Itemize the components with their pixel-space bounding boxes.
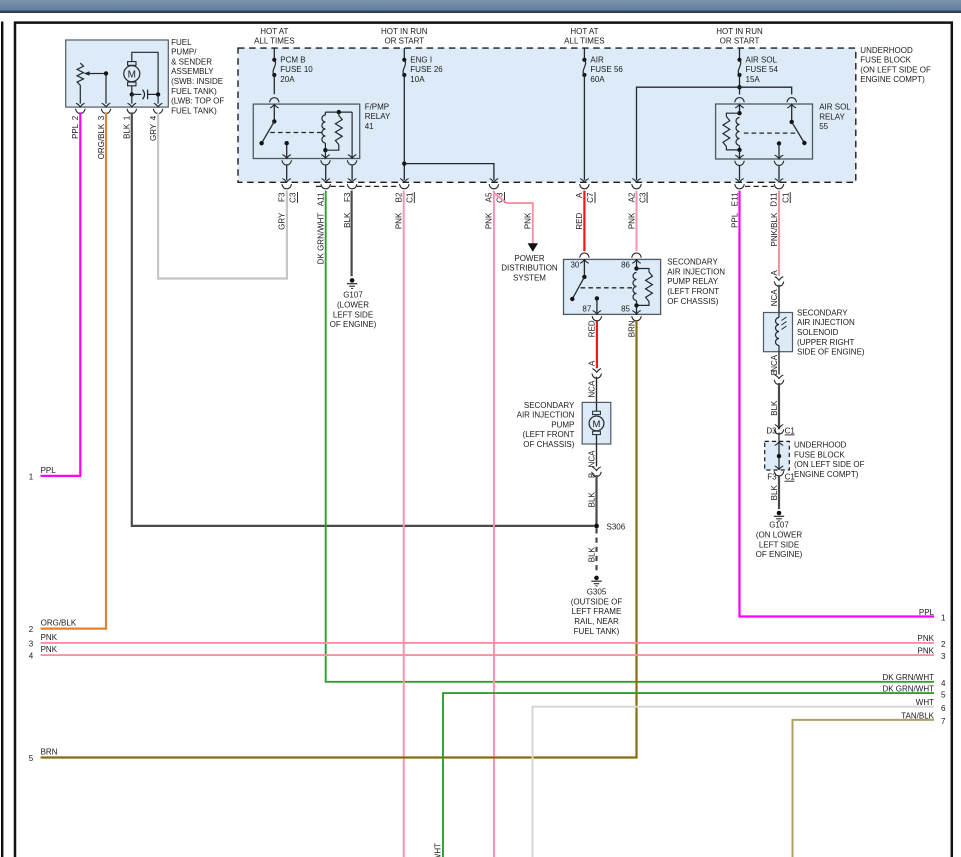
svg-text:(LEFT FRONT: (LEFT FRONT [667,287,719,296]
wire PNK to power distribution [495,194,533,244]
wire NCA below solenoid [778,352,780,375]
relay41 resistor [325,112,342,150]
relay41 control dashed link [270,132,323,134]
wire PCM B feed [273,48,275,60]
svg-text:LEFT SIDE: LEFT SIDE [759,540,799,549]
underhood fuse block (small, dashed) [765,441,790,470]
pin B2/C1 labels [395,192,415,203]
pin A/C7 labels [575,192,595,203]
svg-text:C1: C1 [781,192,790,203]
SAI relay pin85 label [621,304,630,313]
label D3 [766,426,777,435]
svg-text:C3: C3 [638,192,647,203]
wire into small fuse block [778,433,780,442]
connector A solenoid [774,277,784,287]
wire PNK bus 3-2 [41,642,934,644]
svg-text:FUEL TANK): FUEL TANK) [171,87,217,96]
svg-text:OF ENGINE): OF ENGINE) [756,550,803,559]
wire PPL left [41,112,81,476]
label PNK B2 [395,212,404,229]
wire DK GRN/WHT A11 [326,191,934,682]
svg-text:87: 87 [582,304,591,313]
svg-text:PNK: PNK [918,634,935,643]
label HOT AT ALL TIMES (AIR) [564,27,604,46]
svg-text:PPL: PPL [71,123,80,139]
svg-text:A11: A11 [317,192,326,206]
svg-text:FUSE 26: FUSE 26 [410,65,443,74]
label F3 small [767,473,777,482]
svg-text:HOT IN RUN: HOT IN RUN [716,27,763,36]
svg-text:BLK: BLK [123,123,132,139]
svg-text:LEFT SIDE: LEFT SIDE [333,310,373,319]
svg-text:SYSTEM: SYSTEM [513,273,546,282]
svg-text:(UPPER RIGHT: (UPPER RIGHT [797,338,854,347]
wire fuse10 to relay41 [273,75,275,94]
pin A5/C3 labels [485,192,505,203]
pump output pin1 [127,94,137,113]
svg-text:A5: A5 [485,192,494,202]
wire BLK to S306 [595,475,597,526]
svg-text:A: A [575,192,584,198]
wire PNK bus 4-3 [41,654,934,656]
wire ENG I feed [403,48,405,60]
SAI relay pin86 crossing [632,253,642,263]
svg-text:PCM B: PCM B [280,55,305,64]
relay AIR SOL 55 box [716,104,813,159]
relay55 switch input crossing [787,98,797,108]
svg-text:G107: G107 [343,291,363,300]
svg-text:BLK: BLK [587,546,596,562]
svg-text:SECONDARY: SECONDARY [524,401,575,410]
SAI relay switch [570,260,587,302]
fuse AIR SOL FUSE 54 15A [737,55,778,84]
svg-text:B2: B2 [395,192,404,202]
svg-text:ENGINE COMPT): ENGINE COMPT) [794,470,859,479]
SAI solenoid coil [776,313,787,352]
left edge 2 ORG/BLK [29,619,77,634]
svg-text:(ON LOWER: (ON LOWER [756,531,802,540]
label DK GRN/WHT wire [317,213,326,265]
pin F3 label (BLK) [343,192,352,202]
label B pump [587,473,596,478]
svg-text:OF CHASSIS): OF CHASSIS) [667,297,718,306]
label UNDERHOOD FUSE BLOCK [860,46,931,84]
wire fuse54 junction [737,75,741,95]
svg-text:NCA: NCA [770,354,779,372]
pin D11/C1 labels [769,192,790,207]
label F/PMP RELAY 41 [365,102,391,131]
wire TAN/BLK bus 7 [793,720,935,857]
svg-text:ASSEMBLY: ASSEMBLY [171,67,214,76]
svg-text:(ON LEFT SIDE OF: (ON LEFT SIDE OF [794,460,865,469]
svg-text:86: 86 [621,261,630,270]
fuel pump motor [124,62,140,86]
svg-text:3: 3 [941,652,946,661]
sender output pin3 [101,74,111,114]
right edge DK GRN/WHT 5 [882,685,946,700]
svg-text:FUEL TANK): FUEL TANK) [171,106,217,115]
relay55 control dashed link [744,132,796,134]
right edge TAN/BLK 7 [901,711,946,726]
connector D3/C1 [774,425,784,435]
label BRN 85 [627,320,636,337]
wire fuse26 down to B2 [400,75,410,189]
svg-text:M: M [128,70,136,81]
label SECONDARY AIR INJECTION SOLENOID [797,308,865,356]
sender output pin2 [76,85,86,113]
svg-text:OR START: OR START [384,37,424,46]
SAI pump motor [589,402,604,444]
motor top loop wire [132,52,158,92]
svg-text:PNK/BLK: PNK/BLK [770,212,779,246]
svg-text:BRN: BRN [41,748,58,757]
svg-text:PPL: PPL [730,212,739,228]
relay41 output F3 right [347,112,357,189]
label G107 left [330,291,377,329]
svg-text:RAIL, NEAR: RAIL, NEAR [574,617,619,626]
connector strip dashed E11-D11 [745,185,774,187]
relay41 input crossing [270,98,280,108]
relay41 coil output A11 [321,150,331,189]
label NCA solenoid bottom [770,354,779,372]
small block internal wire [775,442,784,470]
svg-text:5: 5 [941,690,946,699]
SAI relay coil [633,273,639,308]
wire PNK A2 [636,191,638,252]
svg-text:3: 3 [29,639,34,648]
svg-text:7: 7 [941,717,946,726]
svg-text:NCA: NCA [770,289,779,307]
svg-text:FUEL TANK): FUEL TANK) [574,627,620,636]
svg-text:UNDERHOOD: UNDERHOOD [794,441,847,450]
svg-text:BLK: BLK [343,212,352,228]
fuel pump & sender assembly box [66,40,169,107]
svg-text:DK GRN/WHT: DK GRN/WHT [882,673,934,682]
svg-text:PNK: PNK [395,212,404,229]
svg-text:PUMP: PUMP [551,420,574,429]
label G305 [571,588,623,636]
label RED 87 [588,320,597,337]
svg-text:C3: C3 [289,192,298,203]
svg-text:RED: RED [588,320,597,337]
relay F/PMP 41 box [253,104,359,158]
wire NCA to solenoid [778,285,780,313]
wire WHT bus 6 [533,707,935,857]
svg-text:AIR: AIR [590,55,604,64]
relay41 coil top node [325,110,352,114]
label POWER DISTRIBUTION SYSTEM [501,254,558,283]
svg-text:D3: D3 [766,426,777,435]
svg-text:AIR INJECTION: AIR INJECTION [797,318,855,327]
fuse AIR FUSE 56 60A [582,55,623,84]
svg-text:(LOWER: (LOWER [337,301,369,310]
connector B solenoid [774,375,784,385]
svg-text:PPL: PPL [41,466,57,475]
SAI relay resistor [637,269,653,306]
label NCA solenoid top [770,289,779,307]
svg-text:DK GRN/WHT: DK GRN/WHT [882,685,934,694]
wire BRN 85 [41,321,637,758]
label C1 at D3 [785,426,796,435]
svg-text:GRY: GRY [149,123,158,141]
splice S306 [594,522,626,531]
right edge DK GRN/WHT 4 [882,673,946,688]
svg-text:(OUTSIDE OF: (OUTSIDE OF [571,597,623,606]
label B solenoid [770,370,779,375]
secondary air injection solenoid box [764,313,793,352]
svg-text:SECONDARY: SECONDARY [797,308,848,317]
svg-text:TAN/BLK: TAN/BLK [901,711,934,720]
right edge PPL 1 [919,608,946,623]
svg-text:ALL TIMES: ALL TIMES [564,37,604,46]
svg-text:OR START: OR START [720,37,760,46]
svg-text:4: 4 [941,679,946,688]
wire RED 87 [596,321,598,368]
svg-text:(LEFT FRONT: (LEFT FRONT [523,430,575,439]
svg-text:PNK: PNK [41,645,58,654]
wire PPL right [740,191,935,617]
connector strip dashed (PCM C1) [316,185,399,187]
label G107 right [756,521,803,559]
relay55 switch [790,104,807,145]
svg-text:PUMP/: PUMP/ [171,48,197,57]
label NCA pump top [587,380,596,398]
svg-text:D11: D11 [769,192,778,207]
fuse PCM B FUSE 10 20A [272,55,313,84]
label BLK wire [343,212,352,228]
svg-text:S306: S306 [607,522,626,531]
label BLK solenoid [770,400,779,416]
svg-text:PNK: PNK [918,646,935,655]
left edge 1 PPL [29,466,56,481]
svg-text:B: B [587,473,596,478]
svg-text:HOT IN RUN: HOT IN RUN [381,27,428,36]
wire fuse26 branch to A5 [404,164,498,189]
pin F3/C3 labels (GRY) [278,192,298,203]
label A pump [588,360,597,366]
left edge 3 PNK [29,633,58,648]
ground G305 [591,576,601,586]
svg-text:4: 4 [29,652,34,661]
svg-text:F/PMP: F/PMP [365,102,389,111]
pin E11 label [730,192,739,206]
svg-text:55: 55 [819,122,828,131]
svg-text:(ON LEFT SIDE OF: (ON LEFT SIDE OF [860,65,931,74]
svg-text:PUMP RELAY: PUMP RELAY [667,277,718,286]
svg-text:ORG/BLK: ORG/BLK [41,619,77,628]
fuel pump pin labels [71,115,158,159]
svg-text:15A: 15A [746,75,761,84]
wire fuse54 branch to relay55 switch [740,87,792,94]
wire fuse54 branch to A2 [632,87,740,189]
label RED wire [575,212,584,229]
pump output pin4 [153,94,163,113]
label BLK G107 right [770,485,779,501]
svg-text:30: 30 [570,261,579,270]
label PNK/BLK wire [770,212,779,246]
connector B pump [592,467,602,477]
relay55 resistor [723,113,740,150]
svg-text:C1: C1 [785,473,796,482]
svg-text:ALL TIMES: ALL TIMES [254,37,294,46]
svg-text:AIR INJECTION: AIR INJECTION [667,267,725,276]
svg-text:HOT AT: HOT AT [570,27,598,36]
right edge PNK 2 [918,634,946,649]
svg-text:LEFT FRAME: LEFT FRAME [572,607,622,616]
svg-text:FUSE 56: FUSE 56 [590,65,623,74]
svg-text:2: 2 [29,625,34,634]
svg-text:ORG/BLK: ORG/BLK [97,123,106,159]
svg-text:BRN: BRN [627,320,636,337]
svg-text:PNK: PNK [485,212,494,229]
wire PNK B2 [403,191,405,857]
wire BLK to G107 right [778,476,780,509]
right edge PNK 3 [918,646,946,661]
relay41 switch [259,104,276,145]
label DK GRN/WHT cut [434,843,443,857]
svg-text:3: 3 [97,115,106,120]
svg-text:SIDE OF ENGINE): SIDE OF ENGINE) [797,348,865,357]
wire DK GRN/WHT bus 5 [443,693,934,857]
header bar [0,0,961,13]
svg-text:E11: E11 [730,192,739,206]
fuse ENG I FUSE 26 10A [402,55,443,84]
wire GRY net [158,112,287,278]
SAI relay pin30 label [570,261,579,270]
wire BLK F3 to G107 [351,191,353,277]
label UNDERHOOD FUSE BLOCK small [794,441,865,479]
svg-text:A2: A2 [627,192,636,202]
connector F3/C1 [774,471,784,476]
svg-text:1: 1 [941,614,946,623]
underhood fuse block (dashed) [238,48,856,182]
label BLK below S306 [587,546,596,562]
svg-text:RELAY: RELAY [365,112,391,121]
label HOT IN RUN OR START (AIR SOL) [716,27,763,46]
relay41 coil [322,112,328,152]
wire PNK A5 long [493,191,495,857]
wire AIR SOL feed [739,48,741,60]
label BLK above S306 [587,492,596,508]
svg-text:F3: F3 [767,473,777,482]
svg-text:C1: C1 [406,192,415,203]
right edge WHT 6 [916,698,946,713]
svg-text:C7: C7 [586,192,595,203]
fuel level sender variable resistor [77,63,108,85]
label PPL wire right [730,212,739,228]
SAI relay common output 87 [592,296,602,321]
svg-text:WHT: WHT [916,698,934,707]
ground G107 left [347,278,357,288]
relay55 coil output E11 [735,150,745,189]
svg-text:F3: F3 [278,192,287,202]
ground G107 right [774,511,784,521]
svg-text:41: 41 [365,122,374,131]
svg-text:NCA: NCA [587,380,596,398]
svg-text:FUSE 10: FUSE 10 [280,65,313,74]
svg-text:UNDERHOOD: UNDERHOOD [860,46,913,55]
svg-text:BLK: BLK [770,400,779,416]
svg-text:BLK: BLK [587,492,596,508]
wire RED A-C7 [583,191,585,252]
wire NCA below pump [596,444,598,467]
svg-text:(LWB: TOP OF: (LWB: TOP OF [171,97,224,106]
svg-text:ENG I: ENG I [410,55,432,64]
svg-text:PPL: PPL [919,608,935,617]
wire AIR feed [583,48,585,60]
svg-text:AIR SOL: AIR SOL [746,55,778,64]
pin A11 label [317,192,326,206]
relay55 coil node [737,104,741,115]
label GRY wire [278,212,287,230]
svg-text:RED: RED [575,212,584,229]
svg-text:2: 2 [941,640,946,649]
svg-text:A: A [770,270,779,276]
left edge 4 PNK [29,645,58,660]
label PNK pds [524,212,533,229]
relay41 common output [282,141,292,189]
label HOT IN RUN OR START (ENG I) [381,27,428,46]
motor bottom wire [130,86,134,97]
left edge 5 BRN [29,748,58,763]
label C1 at F3 [785,473,796,482]
relay55 switch output D11 [774,141,784,189]
svg-text:AIR INJECTION: AIR INJECTION [517,411,575,420]
svg-text:G305: G305 [587,588,607,597]
SAI relay coil node [634,260,638,271]
SAI relay pin30 crossing [580,253,590,263]
svg-text:(SWB: INSIDE: (SWB: INSIDE [171,77,223,86]
pin A2/C3 labels [627,192,647,203]
label FUEL PUMP assembly [171,38,224,116]
svg-text:FUSE BLOCK: FUSE BLOCK [794,450,845,459]
svg-text:C1: C1 [785,426,796,435]
arrow to POWER DISTRIBUTION SYSTEM [528,243,538,252]
label PNK A2 [627,212,636,229]
wire PNK/BLK D11 [778,191,780,276]
svg-text:FUEL: FUEL [171,38,192,47]
svg-text:G107: G107 [769,521,789,530]
svg-text:5: 5 [29,754,34,763]
svg-text:20A: 20A [280,75,295,84]
svg-text:BLK: BLK [770,485,779,501]
svg-text:M: M [593,419,601,430]
svg-text:6: 6 [941,704,946,713]
relay SECONDARY AIR INJECTION PUMP box [564,259,661,314]
wire BLK dashed to G305 [595,528,597,574]
svg-text:AIR SOL: AIR SOL [819,103,851,112]
svg-text:DK GRN/WHT: DK GRN/WHT [317,213,326,265]
relay55 coil input crossing [735,98,745,108]
svg-text:2: 2 [71,115,80,120]
svg-text:PNK: PNK [627,212,636,229]
svg-text:85: 85 [621,304,630,313]
wire BLK to S306 [132,112,594,526]
svg-text:FUSE BLOCK: FUSE BLOCK [860,56,911,65]
svg-text:HOT AT: HOT AT [260,27,288,36]
connector A pump [592,369,602,379]
svg-text:4: 4 [149,115,158,120]
svg-text:DISTRIBUTION: DISTRIBUTION [501,264,558,273]
label A solenoid [770,270,779,276]
svg-text:OF ENGINE): OF ENGINE) [330,320,377,329]
svg-text:B: B [770,370,779,375]
svg-text:& SENDER: & SENDER [171,57,212,66]
wire ORG/BLK [41,112,106,628]
label SECONDARY AIR INJECTION PUMP [517,401,575,449]
label AIR SOL RELAY 55 [819,103,851,132]
svg-text:SOLENOID: SOLENOID [797,328,839,337]
